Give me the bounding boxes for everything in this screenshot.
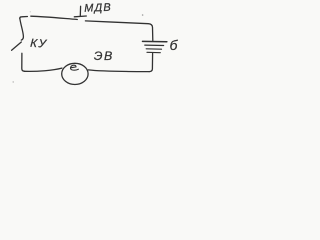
svg-text:КУ: КУ (30, 37, 48, 51)
bell EV inner e-loop (70, 65, 78, 70)
bell EV circle (62, 63, 88, 84)
wire bottom right segment (88, 70, 149, 72)
wire left vertical lower (22, 53, 25, 71)
scan speck 1 (142, 14, 144, 16)
battery B plate 4 (147, 51, 160, 53)
pushbutton MDV bridge bar (74, 15, 86, 18)
battery B plate 1 (long) (143, 40, 167, 42)
wire top-left corner stub (20, 17, 28, 19)
svg-text:ЭВ: ЭВ (94, 49, 114, 63)
wire right vertical below battery (149, 53, 152, 71)
scan speck 2 (13, 81, 14, 82)
svg-text:МДВ: МДВ (84, 2, 112, 15)
wire bottom left segment (24, 68, 62, 71)
scan speck 3 (30, 11, 31, 12)
wire left vertical upper with hook (20, 18, 24, 40)
wire top horizontal right segment (85, 21, 152, 41)
battery B plate 3 (146, 48, 161, 50)
wire top horizontal left segment (31, 16, 78, 19)
battery B plate 2 (145, 44, 164, 46)
svg-text:б: б (170, 38, 179, 53)
switch KU blade (12, 42, 22, 50)
pushbutton MDV plunger stem (79, 6, 81, 16)
